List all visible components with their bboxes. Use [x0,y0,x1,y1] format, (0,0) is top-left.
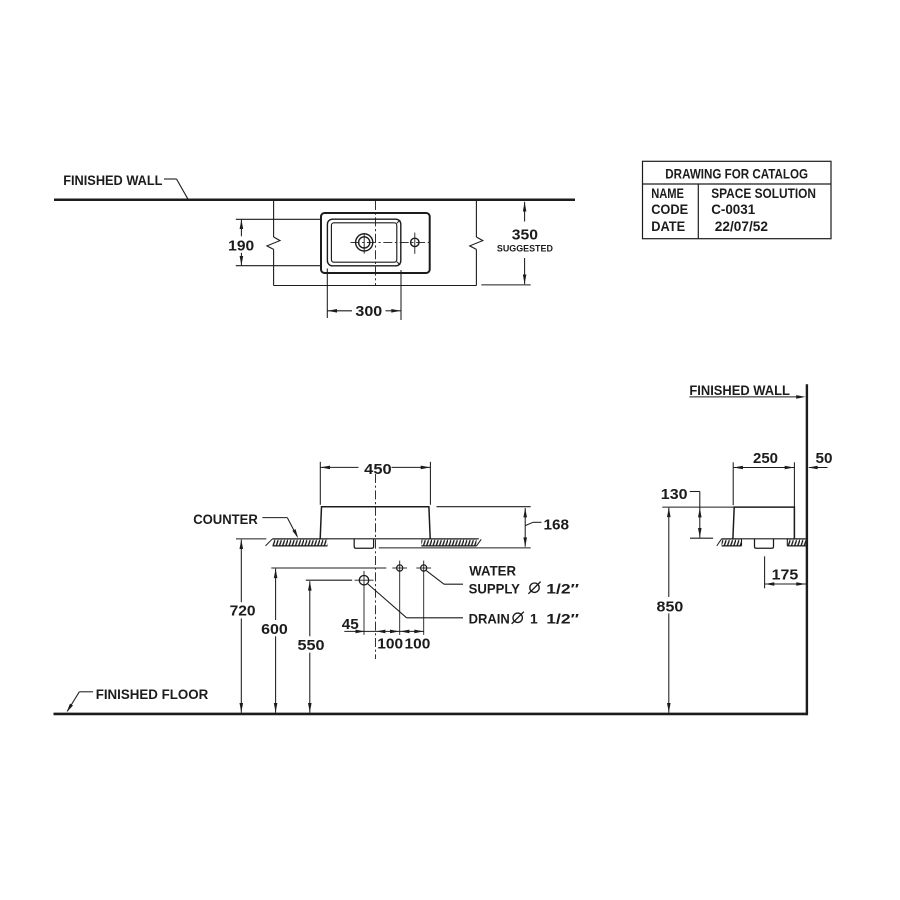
drain hole [359,576,368,585]
svg-text:DRAWING FOR CATALOG: DRAWING FOR CATALOG [665,166,808,181]
svg-text:100: 100 [377,636,403,652]
plan view: faucet hole [356,234,373,251]
drain leader [367,584,406,618]
svg-text:C-0031: C-0031 [711,202,755,217]
title block frame [643,161,832,238]
svg-text:130: 130 [661,487,688,503]
front view: basin body [320,507,430,539]
svg-text:175: 175 [772,568,799,584]
front view: vertical centerline [375,474,377,659]
svg-text:WATER: WATER [469,563,516,578]
dimensions 45 / 100 / 100 [344,630,423,632]
plan view: counter right edge with break [475,201,477,237]
plan view: second hole [411,238,419,246]
svg-text:50: 50 [816,451,833,467]
side view: wall line [806,384,808,715]
dimension 600 [275,569,277,620]
plan view: bowl inner edge [331,223,396,262]
dimension 190 [236,218,321,220]
svg-text:100: 100 [405,636,431,652]
dimension 175 [764,556,766,588]
front view: counter hatch [273,539,328,546]
leader from FINISHED WALL label to wall line [164,178,177,180]
svg-text:FINISHED WALL: FINISHED WALL [63,173,162,188]
svg-text:SUPPLY: SUPPLY [469,581,520,596]
dimension 350 SUGGESTED [524,202,526,222]
svg-text:45: 45 [342,617,359,633]
dimension 250 [732,462,734,505]
svg-text:SUGGESTED: SUGGESTED [497,243,553,254]
svg-text:168: 168 [544,518,570,534]
bowl corner bevels [397,220,400,223]
svg-text:600: 600 [261,622,288,638]
counter cut ends [266,539,273,546]
front view: counter bottom left [273,545,328,547]
svg-text:FINISHED FLOOR: FINISHED FLOOR [96,687,209,702]
svg-text:COUNTER: COUNTER [193,512,258,527]
front view: counter top line [273,538,479,540]
svg-text:350: 350 [512,228,538,244]
svg-text:1: 1 [530,611,538,626]
side view: counter top [722,538,806,540]
finished floor line [54,713,809,716]
diameter symbol (supply) [530,583,539,592]
side view: basin body [733,507,795,538]
dimension 300 [326,269,328,319]
front view: counter bottom right [421,545,476,547]
svg-text:300: 300 [355,304,382,320]
svg-text:FINISHED WALL: FINISHED WALL [689,383,790,398]
svg-text:450: 450 [364,462,391,478]
svg-text:190: 190 [228,238,254,254]
svg-text:720: 720 [230,603,256,619]
svg-text:DRAIN: DRAIN [469,611,510,626]
svg-text:1/2″: 1/2″ [546,581,579,596]
svg-text:550: 550 [298,638,325,654]
svg-text:250: 250 [753,451,778,467]
side view: counter bottom [722,545,742,547]
svg-text:NAME: NAME [651,186,684,201]
water supply hole right [421,565,427,571]
svg-text:850: 850 [657,600,684,616]
dimension 850 [668,508,670,597]
plan view: horizontal centerline [351,241,432,243]
svg-text:DATE: DATE [651,219,685,234]
diameter symbol (drain) [513,613,522,622]
dimension 550 [309,581,311,636]
svg-text:1/2″: 1/2″ [546,611,579,626]
water supply hole left [397,565,403,571]
svg-text:SPACE SOLUTION: SPACE SOLUTION [711,186,816,201]
front view: drain stub [354,539,373,549]
drain height extension line [306,579,352,581]
water supply leader [426,571,444,585]
plan view: basin outer rim [321,213,430,273]
plan view: vertical centerline [375,201,377,286]
plan view: finished wall line [54,199,575,202]
svg-text:CODE: CODE [651,202,688,217]
plan view: bowl outer edge [327,219,400,266]
svg-text:22/07/52: 22/07/52 [715,219,769,234]
dimension 450 [319,462,321,505]
side view: hole edges [741,539,743,546]
side view: basin top extension [662,506,734,508]
side view: drain stub [755,539,774,549]
side view: counter hatch [722,539,742,546]
dimension 168 [437,506,531,508]
supply height extension line [271,567,386,569]
plan view: counter left edge with break [273,201,275,237]
dimension 720 [236,538,266,540]
dimension 50 [809,467,828,469]
plan view: counter front edge [274,285,477,287]
